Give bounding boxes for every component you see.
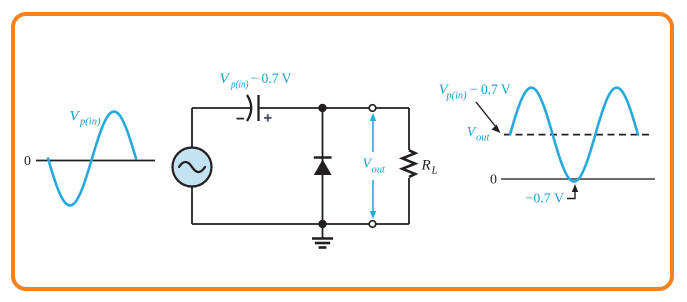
svg-text:p(in): p(in) (446, 90, 467, 101)
svg-text:−0.7 V: −0.7 V (526, 192, 565, 207)
svg-text:p(in): p(in) (79, 116, 101, 128)
svg-text:out: out (476, 133, 491, 144)
svg-text:0: 0 (490, 173, 497, 188)
svg-text:V: V (70, 109, 81, 125)
svg-text:R: R (421, 158, 431, 174)
svg-text:V: V (220, 71, 231, 87)
svg-text:L: L (431, 165, 438, 177)
svg-text:0: 0 (24, 154, 31, 169)
svg-text:out: out (372, 165, 387, 176)
svg-text:− 0.7 V: − 0.7 V (470, 82, 511, 98)
svg-text:− 0.7 V: − 0.7 V (251, 71, 292, 87)
svg-text:p(in): p(in) (230, 80, 249, 91)
